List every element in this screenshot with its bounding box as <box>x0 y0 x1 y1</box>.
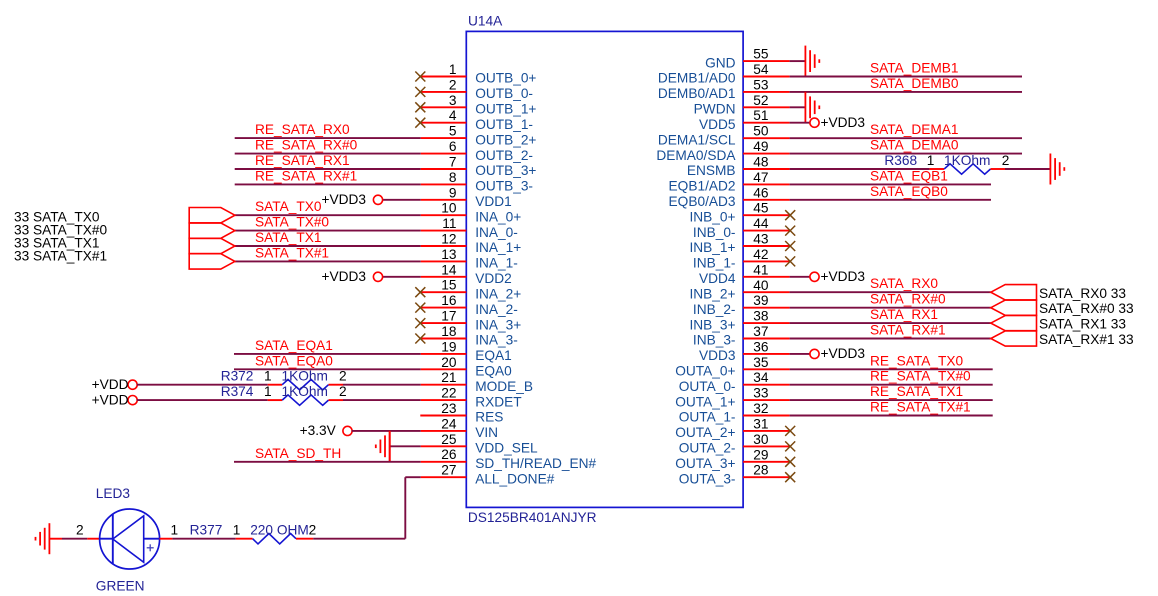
pin 42 number <box>753 247 768 262</box>
no-connect X pin 30 <box>785 441 795 451</box>
svg-text:1: 1 <box>264 384 272 399</box>
svg-text:EQB1/AD2: EQB1/AD2 <box>669 179 736 194</box>
pin 39 number <box>753 293 768 308</box>
wire R374 to pin 22 <box>329 399 467 401</box>
svg-text:54: 54 <box>753 62 769 77</box>
wire net SATA_RX0 to pin 40 <box>743 291 991 293</box>
svg-text:49: 49 <box>753 139 768 154</box>
svg-text:1: 1 <box>171 523 179 538</box>
no-connect X pin 31 <box>785 426 795 436</box>
pin 6 name OUTB_2- <box>475 148 533 163</box>
pin 45 wire (no connect) <box>743 214 790 216</box>
net label SATA_DEMB0 <box>870 76 959 91</box>
pin 37 number <box>753 324 768 339</box>
wire ground to LED pin 2 <box>49 538 99 540</box>
svg-text:+VDD3: +VDD3 <box>321 269 366 284</box>
net label RE_SATA_TX#0 <box>870 369 971 384</box>
svg-text:DS125BR401ANJYR: DS125BR401ANJYR <box>468 510 597 525</box>
LED3 value GREEN <box>96 579 145 594</box>
no-connect X pin 45 <box>785 210 795 220</box>
svg-text:29: 29 <box>753 447 768 462</box>
wire R372 to pin 21 <box>329 384 467 386</box>
pin 25 name VDD_SEL <box>475 441 538 456</box>
wire net RE_SATA_TX1 to pin 33 <box>743 399 993 401</box>
off-page connector SATA_RX0 <box>991 285 1037 300</box>
pin 23 number <box>441 401 457 416</box>
net label RE_SATA_RX#1 <box>255 168 357 183</box>
svg-text:2: 2 <box>339 369 347 384</box>
svg-text:47: 47 <box>753 170 768 185</box>
pin 2 wire (no connect) <box>420 91 466 93</box>
wire net SATA_SD_TH to pin 26 <box>234 461 466 463</box>
power symbol +3.3V (pin 24) <box>300 423 352 438</box>
off-page connector SATA_TX0 <box>189 208 235 223</box>
pin 54 number <box>753 62 769 77</box>
svg-text:20: 20 <box>441 355 457 370</box>
wire net SATA_DEMB0 to pin 53 <box>743 91 1022 93</box>
wire net RE_SATA_TX0 to pin 35 <box>743 368 993 370</box>
svg-text:EQB0/AD3: EQB0/AD3 <box>669 194 736 209</box>
svg-text:PWDN: PWDN <box>694 102 736 117</box>
svg-text:31: 31 <box>753 416 768 431</box>
pin 15 name INA_2+ <box>475 286 521 301</box>
svg-text:INA_3-: INA_3- <box>475 333 518 348</box>
pin 28 name OUTA_3- <box>679 471 736 486</box>
pin 23 name RES <box>475 410 503 425</box>
svg-text:44: 44 <box>753 216 769 231</box>
pin 27 number <box>441 463 456 478</box>
svg-text:SATA_RX#0 33: SATA_RX#0 33 <box>1039 301 1134 316</box>
pin 16 number <box>441 293 457 308</box>
svg-text:1KOhm: 1KOhm <box>944 153 990 168</box>
pin 38 name INB_3+ <box>689 317 735 332</box>
svg-text:40: 40 <box>753 278 769 293</box>
net label SATA_RX#0 <box>870 292 946 307</box>
pin 33 name OUTA_1+ <box>675 394 735 409</box>
pin 20 name EQA0 <box>475 364 512 379</box>
sheet reference 33 SATA_TX#1 <box>14 249 107 264</box>
pin 50 number <box>753 124 769 139</box>
svg-text:SATA_TX#1: SATA_TX#1 <box>255 245 329 260</box>
svg-text:33 SATA_TX#1: 33 SATA_TX#1 <box>14 249 107 264</box>
power symbol +VDD3 (pin 51) <box>810 115 865 130</box>
svg-text:+VDD3: +VDD3 <box>321 192 366 207</box>
resistor R372 1KOhm <box>221 369 347 390</box>
pin 9 number <box>449 185 457 200</box>
net label RE_SATA_TX1 <box>870 384 963 399</box>
pin 30 name OUTA_2- <box>679 441 736 456</box>
svg-text:SATA_DEMB0: SATA_DEMB0 <box>870 76 959 91</box>
sheet reference SATA_RX#1 33 <box>1039 332 1134 347</box>
pin 52 number <box>753 93 768 108</box>
svg-text:30: 30 <box>753 432 769 447</box>
svg-text:2: 2 <box>309 523 317 538</box>
pin 11 number <box>442 216 456 231</box>
resistor R374 1KOhm <box>221 384 347 405</box>
svg-text:U14A: U14A <box>468 14 503 29</box>
svg-text:OUTA_1+: OUTA_1+ <box>675 394 735 409</box>
wire net RE_SATA_TX#0 to pin 34 <box>743 384 993 386</box>
pin 21 number <box>441 370 456 385</box>
pin 12 name INA_1+ <box>475 240 521 255</box>
pin 29 name OUTA_3+ <box>675 456 735 471</box>
pin 16 wire (no connect) <box>420 307 466 309</box>
net label SATA_DEMB1 <box>870 61 959 76</box>
svg-text:INB_1+: INB_1+ <box>689 240 735 255</box>
pin 8 name OUTB_3- <box>475 179 533 194</box>
svg-text:21: 21 <box>441 370 456 385</box>
svg-text:37: 37 <box>753 324 768 339</box>
pin 45 name INB_0+ <box>689 209 735 224</box>
no-connect X pin 4 <box>415 118 425 128</box>
pin 53 name DEMB0/AD1 <box>658 86 736 101</box>
pin 9 name VDD1 <box>475 194 512 209</box>
wire pin 55 to ground <box>743 60 805 62</box>
svg-text:INB_2+: INB_2+ <box>689 286 735 301</box>
svg-text:12: 12 <box>441 232 456 247</box>
svg-text:35: 35 <box>753 355 769 370</box>
wire net SATA_RX1 to pin 38 <box>743 322 991 324</box>
pin 46 name EQB0/AD3 <box>669 194 736 209</box>
pin 45 number <box>753 201 769 216</box>
sheet reference SATA_RX0 33 <box>1039 286 1126 301</box>
svg-text:OUTB_2+: OUTB_2+ <box>475 132 536 147</box>
wire R377 to pin 27 vertical <box>296 538 405 540</box>
no-connect X pin 3 <box>415 102 425 112</box>
pin 47 number <box>753 170 768 185</box>
pin 1 name OUTB_0+ <box>475 71 536 86</box>
ground (R368) <box>1050 154 1064 185</box>
svg-text:DEMA0/SDA: DEMA0/SDA <box>656 148 736 163</box>
pin 43 name INB_1+ <box>689 240 735 255</box>
svg-text:32: 32 <box>753 401 768 416</box>
wire LED pin1 to R377 <box>160 538 253 540</box>
pin 15 number <box>441 278 457 293</box>
pin 53 number <box>753 77 769 92</box>
pin 17 number <box>441 309 456 324</box>
pin 44 number <box>753 216 769 231</box>
pin 42 wire (no connect) <box>743 260 790 262</box>
wire net RE_SATA_RX#1 to pin 8 <box>235 183 467 185</box>
wire pin 51 to +VDD3 <box>743 122 810 124</box>
wire pin 27 to LED circuit <box>405 477 466 539</box>
ground (pin 55) <box>805 46 819 77</box>
wire net SATA_DEMB1 to pin 54 <box>743 76 1022 78</box>
svg-text:INA_2+: INA_2+ <box>475 286 521 301</box>
ground (pin 52) <box>805 92 819 123</box>
pin 3 wire (no connect) <box>420 106 466 108</box>
pin 10 number <box>441 201 457 216</box>
svg-text:18: 18 <box>441 324 457 339</box>
pin 2 number <box>449 77 457 92</box>
pin 27 name ALL_DONE# <box>475 471 555 486</box>
pin 30 wire (no connect) <box>743 445 790 447</box>
svg-text:43: 43 <box>753 232 769 247</box>
wire net RE_SATA_RX0 to pin 5 <box>235 137 467 139</box>
net label SATA_DEMA0 <box>870 138 959 153</box>
svg-text:220 OHM: 220 OHM <box>250 523 309 538</box>
svg-text:SATA_RX1 33: SATA_RX1 33 <box>1039 317 1126 332</box>
pin 6 number <box>449 139 457 154</box>
pin 5 number <box>449 124 457 139</box>
svg-text:SATA_RX#1 33: SATA_RX#1 33 <box>1039 332 1134 347</box>
svg-text:RES: RES <box>475 410 503 425</box>
pin 3 name OUTB_1+ <box>475 102 536 117</box>
svg-text:VDD2: VDD2 <box>475 271 512 286</box>
no-connect X pin 15 <box>415 287 425 297</box>
pin 36 number <box>753 339 769 354</box>
no-connect X pin 42 <box>785 256 795 266</box>
pin 47 name EQB1/AD2 <box>669 179 736 194</box>
svg-text:26: 26 <box>441 447 457 462</box>
svg-text:15: 15 <box>441 278 457 293</box>
svg-text:GREEN: GREEN <box>96 579 145 594</box>
svg-text:52: 52 <box>753 93 768 108</box>
svg-text:ALL_DONE#: ALL_DONE# <box>475 471 555 486</box>
power symbol +VDD3 (pin 36) <box>810 346 865 361</box>
svg-text:13: 13 <box>441 247 457 262</box>
svg-text:R372: R372 <box>221 369 254 384</box>
off-page connector SATA_RX#1 <box>991 331 1037 346</box>
svg-text:OUTB_1-: OUTB_1- <box>475 117 533 132</box>
net label SATA_TX#1 <box>255 245 329 260</box>
svg-text:50: 50 <box>753 124 769 139</box>
pin 48 name ENSMB <box>687 163 736 178</box>
power symbol +VDD3 (pin 41) <box>810 269 865 284</box>
sheet reference 33 SATA_TX1 <box>14 236 99 251</box>
pin 1 wire (no connect) <box>420 76 466 78</box>
svg-text:SATA_TX#0: SATA_TX#0 <box>255 215 329 230</box>
net label SATA_EQB1 <box>870 168 948 183</box>
pin 22 number <box>441 386 456 401</box>
svg-text:36: 36 <box>753 339 769 354</box>
svg-text:17: 17 <box>441 309 456 324</box>
svg-text:41: 41 <box>753 262 768 277</box>
svg-text:SATA_TX0: SATA_TX0 <box>255 199 322 214</box>
svg-text:51: 51 <box>753 108 768 123</box>
wire +VDD3 to pin 14 <box>382 276 466 278</box>
net label SATA_EQA1 <box>255 338 333 353</box>
pin 7 number <box>449 155 457 170</box>
svg-text:2: 2 <box>449 77 457 92</box>
pin 15 wire (no connect) <box>420 291 466 293</box>
svg-text:+3.3V: +3.3V <box>300 423 337 438</box>
net label RE_SATA_TX0 <box>870 353 963 368</box>
sheet reference SATA_RX1 33 <box>1039 317 1126 332</box>
pin 19 name EQA1 <box>475 348 512 363</box>
pin 4 wire (no connect) <box>420 122 466 124</box>
ground (LED cathode) <box>36 523 50 554</box>
svg-text:RE_SATA_TX#0: RE_SATA_TX#0 <box>870 369 971 384</box>
wire net SATA_TX1 to pin 12 <box>235 245 466 247</box>
wire +VDD to R372 <box>137 384 282 386</box>
pin 29 number <box>753 447 768 462</box>
svg-text:RE_SATA_RX#1: RE_SATA_RX#1 <box>255 168 357 183</box>
svg-text:27: 27 <box>441 463 456 478</box>
pin 43 wire (no connect) <box>743 245 790 247</box>
resistor R368 1KOhm <box>884 153 1009 174</box>
net label SATA_EQB0 <box>870 184 948 199</box>
svg-text:EQA0: EQA0 <box>475 364 512 379</box>
LED pin 2 number <box>76 523 84 538</box>
pin 13 name INA_1- <box>475 256 518 271</box>
IC part number DS125BR401ANJYR <box>468 510 597 525</box>
pin 28 wire (no connect) <box>743 476 790 478</box>
pin 14 number <box>441 262 457 277</box>
wire pin 48 to R368 <box>743 168 944 170</box>
pin 4 number <box>449 108 457 123</box>
svg-text:INA_1+: INA_1+ <box>475 240 521 255</box>
pin 7 name OUTB_3+ <box>475 163 536 178</box>
pin 32 name OUTA_1- <box>679 410 736 425</box>
svg-text:OUTA_3-: OUTA_3- <box>679 471 736 486</box>
net label SATA_RX1 <box>870 307 938 322</box>
svg-text:8: 8 <box>449 170 457 185</box>
net label SATA_TX#0 <box>255 215 329 230</box>
svg-text:SD_TH/READ_EN#: SD_TH/READ_EN# <box>475 456 596 471</box>
svg-text:5: 5 <box>449 124 457 139</box>
net label SATA_RX0 <box>870 276 938 291</box>
svg-text:OUTA_0-: OUTA_0- <box>679 379 736 394</box>
svg-text:RE_SATA_TX#1: RE_SATA_TX#1 <box>870 400 971 415</box>
svg-text:+VDD: +VDD <box>92 392 129 407</box>
pin 31 number <box>753 416 768 431</box>
svg-text:INA_0-: INA_0- <box>475 225 518 240</box>
svg-text:SATA_RX#0: SATA_RX#0 <box>870 292 946 307</box>
wire net SATA_DEMA1 to pin 50 <box>743 137 1022 139</box>
pin 48 number <box>753 155 769 170</box>
pin 41 name VDD4 <box>699 271 736 286</box>
svg-text:DEMB0/AD1: DEMB0/AD1 <box>658 86 736 101</box>
pin 51 name VDD5 <box>699 117 736 132</box>
pin 49 number <box>753 139 768 154</box>
no-connect X pin 28 <box>785 472 795 482</box>
wire net SATA_RX#1 to pin 37 <box>743 338 991 340</box>
svg-text:9: 9 <box>449 185 457 200</box>
svg-text:MODE_B: MODE_B <box>475 379 533 394</box>
svg-text:SATA_TX1: SATA_TX1 <box>255 230 321 245</box>
pin 4 name OUTB_1- <box>475 117 533 132</box>
svg-text:33: 33 <box>753 386 769 401</box>
wire net SATA_TX#0 to pin 11 <box>235 230 466 232</box>
svg-text:48: 48 <box>753 155 769 170</box>
pin 31 name OUTA_2+ <box>675 425 735 440</box>
svg-text:INB_0+: INB_0+ <box>689 209 735 224</box>
svg-text:SATA_DEMA0: SATA_DEMA0 <box>870 138 959 153</box>
pin 22 name RXDET <box>475 394 522 409</box>
pin 3 number <box>449 93 457 108</box>
pin 2 name OUTB_0- <box>475 86 533 101</box>
pin 26 name SD_TH/READ_EN# <box>475 456 596 471</box>
svg-text:VDD3: VDD3 <box>699 348 736 363</box>
svg-text:SATA_DEMB1: SATA_DEMB1 <box>870 61 959 76</box>
resistor R377 220 OHM <box>190 523 317 544</box>
svg-text:7: 7 <box>449 155 457 170</box>
pin 40 number <box>753 278 769 293</box>
net label SATA_RX#1 <box>870 323 946 338</box>
svg-text:SATA_EQA1: SATA_EQA1 <box>255 338 333 353</box>
LED LED3 <box>100 509 160 569</box>
pin 34 name OUTA_0- <box>679 379 736 394</box>
pin 39 name INB_2- <box>693 302 736 317</box>
svg-text:OUTA_2-: OUTA_2- <box>679 441 736 456</box>
svg-text:2: 2 <box>339 384 347 399</box>
pin 35 number <box>753 355 769 370</box>
svg-text:45: 45 <box>753 201 769 216</box>
pin 44 wire (no connect) <box>743 230 790 232</box>
svg-text:6: 6 <box>449 139 457 154</box>
wire net SATA_EQA0 to pin 20 <box>234 368 466 370</box>
power symbol +VDD (pin 21) <box>92 377 138 392</box>
svg-text:11: 11 <box>442 216 456 231</box>
pin 49 name DEMA0/SDA <box>656 148 736 163</box>
svg-text:1: 1 <box>233 523 241 538</box>
pin 40 name INB_2+ <box>689 286 735 301</box>
LED3 reference label <box>96 486 131 501</box>
pin 21 name MODE_B <box>475 379 533 394</box>
svg-text:RE_SATA_RX#0: RE_SATA_RX#0 <box>255 138 358 153</box>
wire R368 to ground <box>991 168 1051 170</box>
net label SATA_DEMA1 <box>870 122 959 137</box>
svg-text:4: 4 <box>449 108 457 123</box>
pin 11 name INA_0- <box>475 225 518 240</box>
pin 31 wire (no connect) <box>743 430 790 432</box>
svg-text:OUTA_0+: OUTA_0+ <box>675 364 735 379</box>
wire +3.3V to pin 24 <box>352 430 467 432</box>
pin 17 name INA_3+ <box>475 317 521 332</box>
pin 10 name INA_0+ <box>475 209 521 224</box>
svg-text:INB_3-: INB_3- <box>693 333 736 348</box>
svg-text:10: 10 <box>441 201 457 216</box>
svg-text:DEMB1/AD0: DEMB1/AD0 <box>658 71 736 86</box>
IC reference U14A <box>468 14 503 29</box>
pin 26 number <box>441 447 457 462</box>
net label SATA_SD_TH <box>255 446 341 461</box>
pin 17 wire (no connect) <box>420 322 466 324</box>
pin 52 name PWDN <box>694 102 736 117</box>
pin 1 number <box>449 62 457 77</box>
svg-text:+VDD3: +VDD3 <box>821 346 866 361</box>
pin 37 name INB_3- <box>693 333 736 348</box>
net label RE_SATA_RX#0 <box>255 138 358 153</box>
off-page connector SATA_RX1 <box>991 316 1037 331</box>
pin 32 number <box>753 401 768 416</box>
svg-text:GND: GND <box>705 55 736 70</box>
svg-text:INA_0+: INA_0+ <box>475 209 521 224</box>
pin 55 number <box>753 47 769 62</box>
svg-text:RE_SATA_TX1: RE_SATA_TX1 <box>870 384 963 399</box>
svg-text:OUTB_0-: OUTB_0- <box>475 86 533 101</box>
svg-text:3: 3 <box>449 93 457 108</box>
pin 18 number <box>441 324 457 339</box>
svg-text:SATA_SD_TH: SATA_SD_TH <box>255 446 341 461</box>
pin 12 number <box>441 232 456 247</box>
pin 42 name INB_1- <box>693 256 736 271</box>
svg-text:25: 25 <box>441 432 457 447</box>
no-connect X pin 1 <box>415 72 425 82</box>
svg-text:EQA1: EQA1 <box>475 348 512 363</box>
svg-text:SATA_RX0: SATA_RX0 <box>870 276 938 291</box>
pin 24 name VIN <box>475 425 498 440</box>
svg-text:INA_3+: INA_3+ <box>475 317 521 332</box>
svg-text:SATA_EQB1: SATA_EQB1 <box>870 168 948 183</box>
net label RE_SATA_TX#1 <box>870 400 971 415</box>
pin 16 name INA_2- <box>475 302 518 317</box>
svg-text:INB_3+: INB_3+ <box>689 317 735 332</box>
svg-text:VDD1: VDD1 <box>475 194 512 209</box>
net label RE_SATA_RX0 <box>255 122 350 137</box>
pin 20 number <box>441 355 457 370</box>
